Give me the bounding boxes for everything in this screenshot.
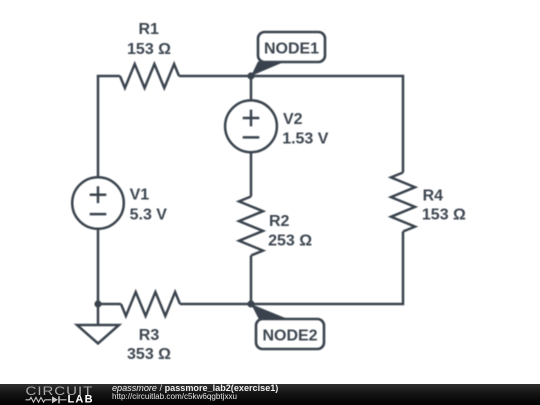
wire top-left corner: left rail top + top rail left segment <box>98 76 120 178</box>
V1 minus sign <box>90 213 107 216</box>
credit line <box>112 384 278 393</box>
svg-text:V2: V2 <box>283 111 303 128</box>
node label NODE2 <box>256 319 324 349</box>
node junction dot bottom-left <box>94 300 101 307</box>
node junction dot NODE1 <box>247 72 254 79</box>
node junction dot NODE2 <box>247 300 254 307</box>
resistor R4 <box>391 173 415 232</box>
svg-text:R4: R4 <box>423 187 444 204</box>
callout pointer NODE2 <box>251 304 289 320</box>
svg-text:NODE1: NODE1 <box>264 41 319 58</box>
url line <box>112 392 237 401</box>
svg-text:R2: R2 <box>269 213 290 230</box>
callout pointer NODE1 <box>251 62 285 77</box>
svg-text:353 Ω: 353 Ω <box>127 346 171 363</box>
wire ground lead <box>97 304 100 325</box>
voltage source V2 <box>225 100 277 152</box>
node label NODE1 <box>258 32 325 62</box>
svg-text:5.3 V: 5.3 V <box>130 206 168 223</box>
wire bottom rail left segment <box>98 303 121 306</box>
wire right rail bottom + bottom rail right segment <box>180 232 403 305</box>
svg-text:R1: R1 <box>138 21 159 38</box>
voltage source V1 <box>72 177 124 229</box>
wire R2 to bottom rail <box>250 256 253 305</box>
svg-text:153 Ω: 153 Ω <box>422 207 466 224</box>
resistor R3 <box>121 292 180 316</box>
CircuitLab logo <box>0 384 100 405</box>
svg-text:NODE2: NODE2 <box>262 328 317 345</box>
svg-text:LAB: LAB <box>68 393 94 405</box>
wire V2 top lead <box>250 76 253 100</box>
svg-text:253 Ω: 253 Ω <box>268 232 312 249</box>
svg-text:V1: V1 <box>130 186 150 203</box>
V2 plus sign <box>243 110 260 127</box>
V2 minus sign <box>243 136 260 139</box>
wire V2 to R2 <box>250 152 253 196</box>
wire top rail right segment + right rail top <box>179 76 403 173</box>
resistor R2 <box>239 197 263 256</box>
svg-text:153 Ω: 153 Ω <box>127 41 171 58</box>
V1 plus sign <box>90 186 107 203</box>
resistor R1 <box>120 64 179 88</box>
svg-text:R3: R3 <box>139 327 160 344</box>
wire V1 bottom lead <box>97 229 100 304</box>
svg-text:1.53 V: 1.53 V <box>282 130 329 147</box>
ground <box>77 325 119 344</box>
footer bar <box>0 384 540 405</box>
